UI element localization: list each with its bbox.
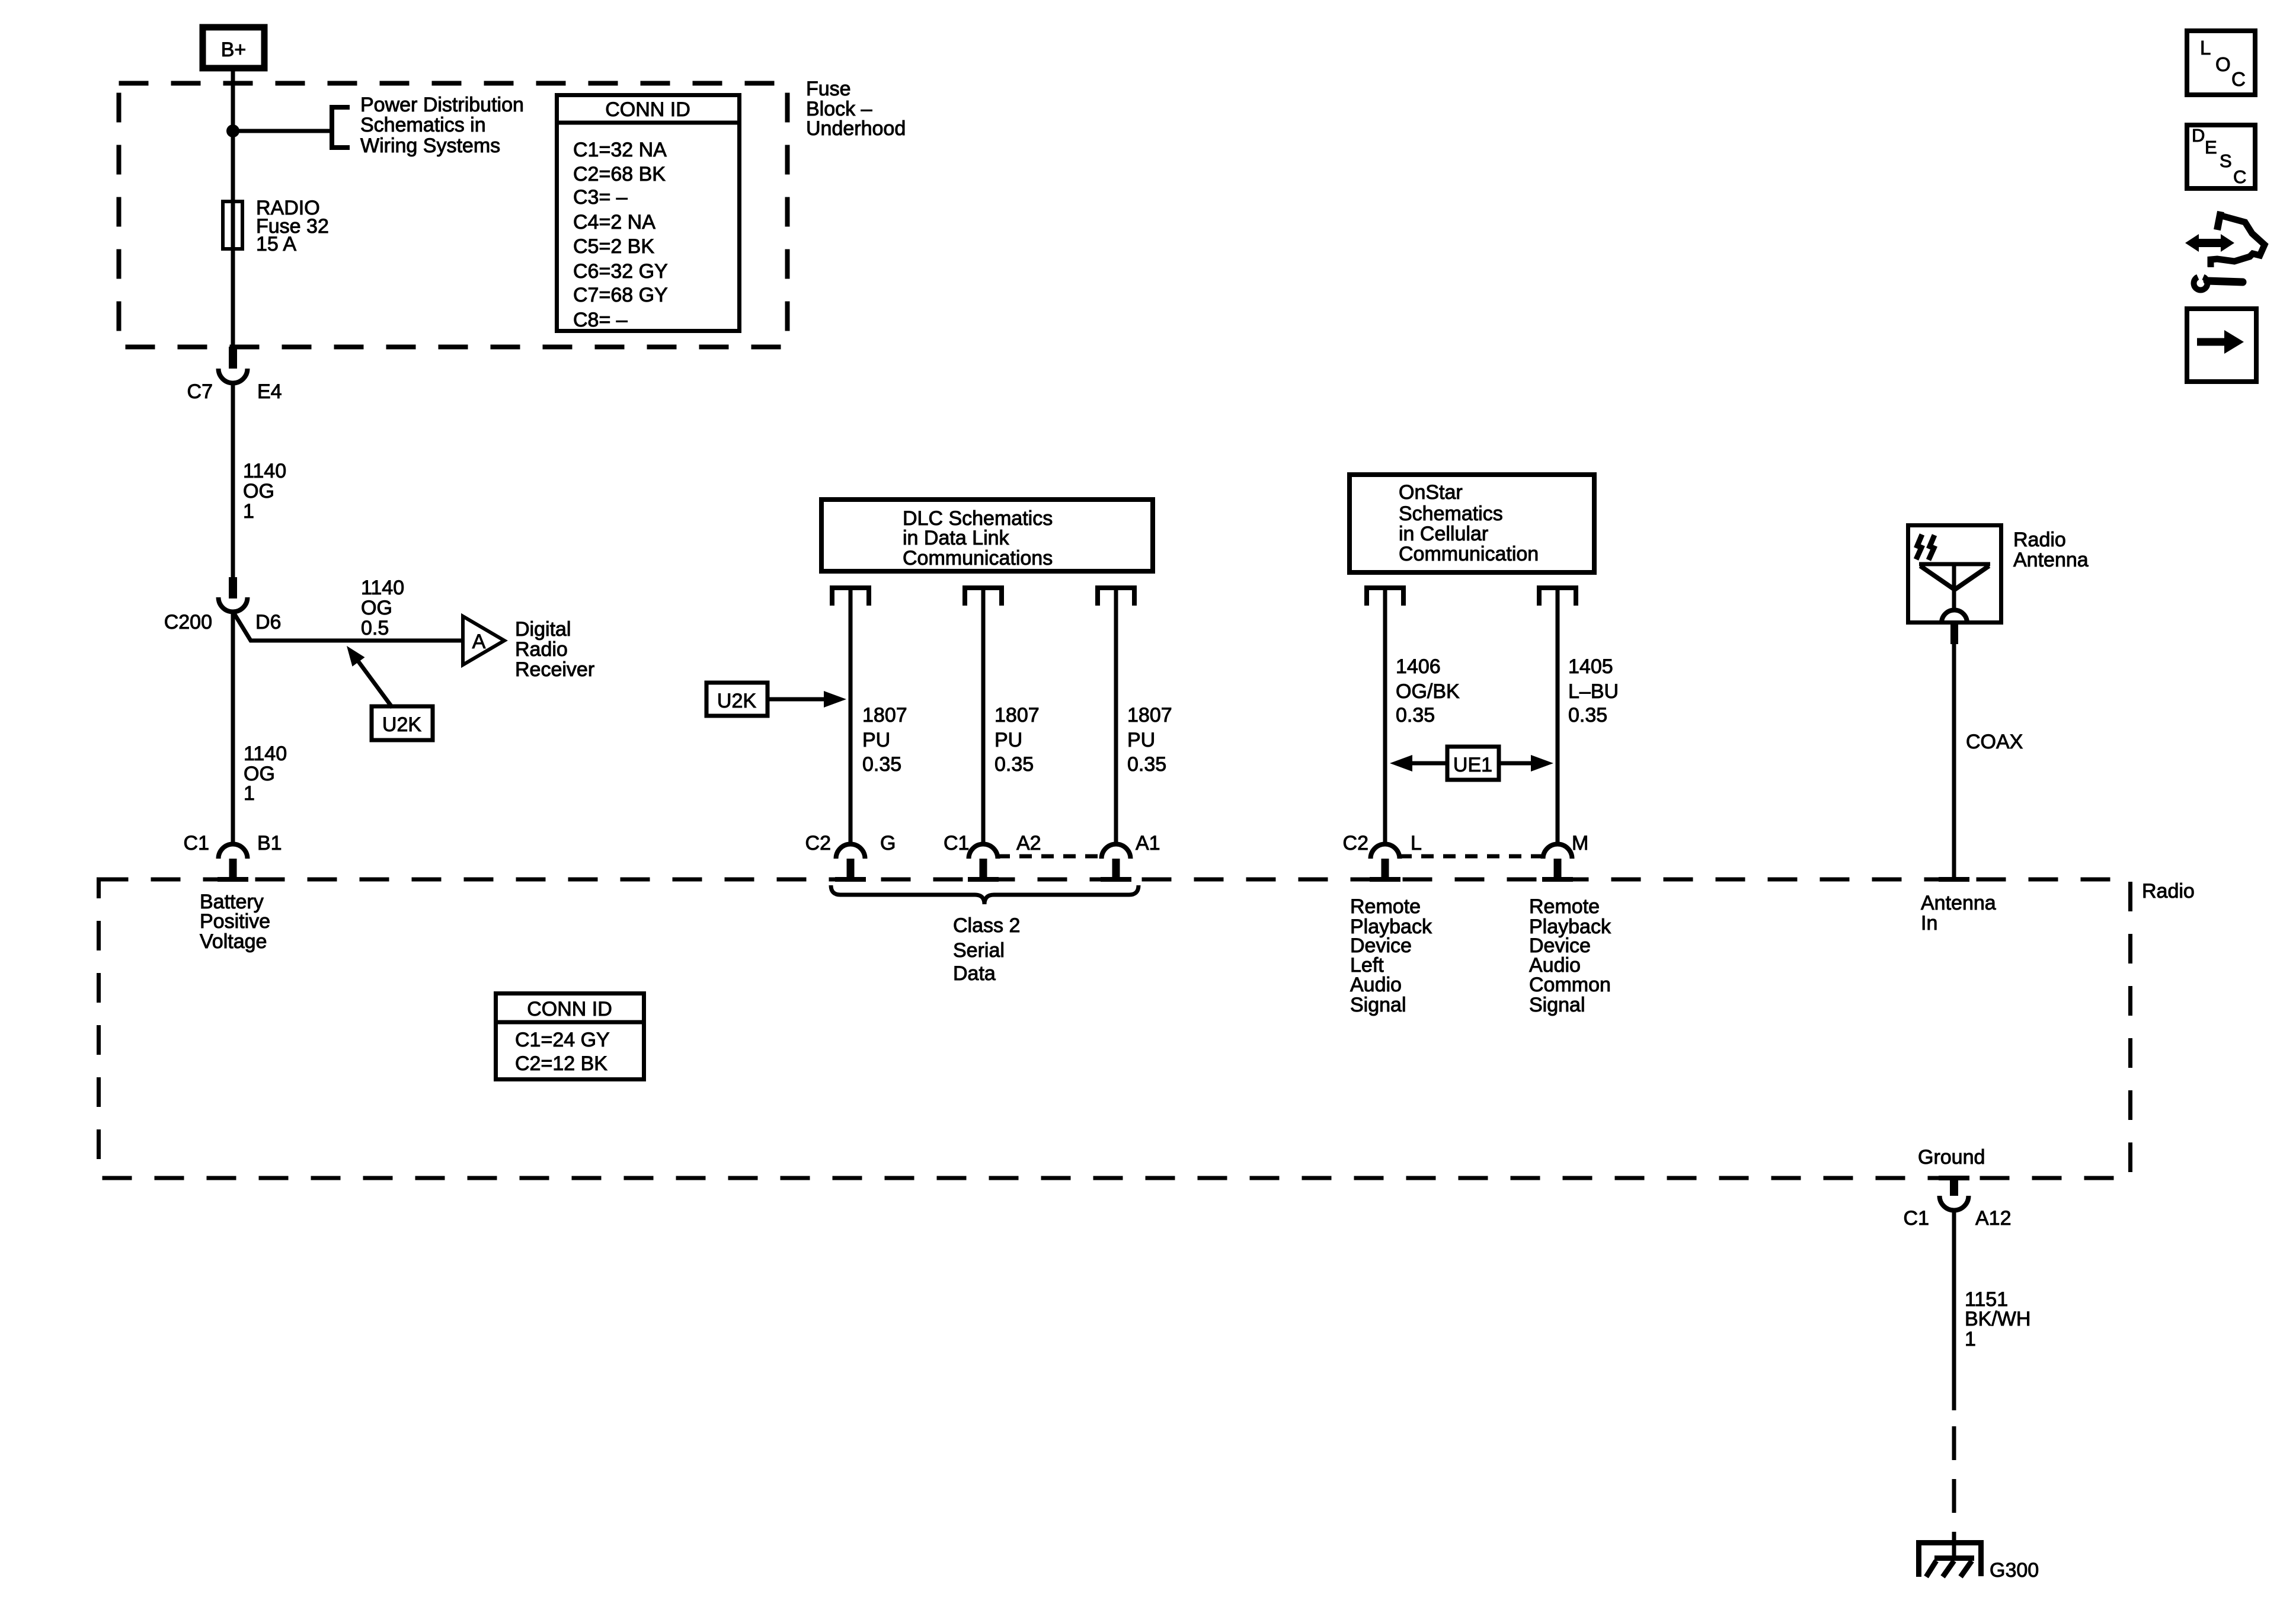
svg-text:C1=32 NA: C1=32 NA: [573, 139, 667, 161]
svg-text:Antenna: Antenna: [2013, 549, 2089, 571]
svg-text:in Cellular: in Cellular: [1399, 523, 1488, 545]
svg-text:C: C: [2231, 68, 2246, 90]
svg-text:CONN ID: CONN ID: [605, 98, 690, 121]
svg-text:D6: D6: [255, 611, 281, 633]
svg-text:U2K: U2K: [717, 690, 756, 712]
svg-text:OG: OG: [243, 480, 274, 502]
svg-text:B1: B1: [257, 832, 282, 854]
svg-text:G: G: [880, 832, 896, 854]
svg-text:L–BU: L–BU: [1568, 680, 1619, 703]
svg-text:C: C: [2233, 167, 2246, 187]
svg-text:1: 1: [243, 500, 254, 523]
svg-text:Class 2: Class 2: [953, 914, 1020, 937]
svg-text:OG/BK: OG/BK: [1396, 680, 1460, 703]
svg-text:1140: 1140: [244, 742, 287, 765]
svg-text:1140: 1140: [361, 577, 404, 599]
svg-text:OnStar: OnStar: [1399, 481, 1463, 504]
svg-text:15 A: 15 A: [256, 233, 296, 255]
svg-text:0.35: 0.35: [1396, 704, 1435, 726]
svg-text:E4: E4: [257, 380, 282, 403]
svg-text:Voltage: Voltage: [200, 930, 267, 953]
svg-text:0.35: 0.35: [994, 753, 1034, 776]
svg-text:1: 1: [1965, 1328, 1976, 1350]
svg-text:C1: C1: [184, 832, 209, 854]
svg-text:Audio: Audio: [1350, 974, 1402, 996]
svg-text:COAX: COAX: [1966, 731, 2023, 753]
svg-text:Radio: Radio: [2142, 880, 2195, 902]
svg-text:L: L: [1411, 832, 1422, 854]
svg-text:C1=24 GY: C1=24 GY: [515, 1029, 610, 1051]
svg-text:A1: A1: [1136, 832, 1160, 854]
svg-text:C5=2 BK: C5=2 BK: [573, 235, 654, 258]
svg-text:G300: G300: [1990, 1559, 2039, 1582]
svg-text:Communications: Communications: [903, 547, 1053, 569]
svg-text:Radio: Radio: [515, 638, 568, 661]
svg-text:O: O: [2215, 53, 2231, 75]
svg-text:A2: A2: [1016, 832, 1041, 854]
svg-text:C2=68 BK: C2=68 BK: [573, 163, 666, 185]
svg-text:L: L: [2200, 37, 2211, 59]
svg-text:BK/WH: BK/WH: [1965, 1308, 2030, 1330]
svg-text:1405: 1405: [1568, 655, 1613, 678]
svg-text:PU: PU: [994, 729, 1022, 751]
svg-text:Antenna: Antenna: [1921, 892, 1996, 914]
svg-text:C200: C200: [164, 611, 212, 633]
svg-text:S: S: [2220, 151, 2232, 171]
svg-text:A: A: [472, 630, 486, 653]
svg-text:Serial: Serial: [953, 939, 1005, 962]
svg-text:C1: C1: [944, 832, 969, 854]
svg-text:C1: C1: [1904, 1207, 1929, 1230]
svg-text:C7: C7: [187, 380, 213, 403]
svg-text:0.35: 0.35: [1127, 753, 1166, 776]
svg-text:Ground: Ground: [1918, 1146, 1985, 1169]
svg-text:Common: Common: [1529, 974, 1611, 996]
svg-text:M: M: [1572, 832, 1588, 854]
svg-text:Data: Data: [953, 962, 996, 985]
svg-text:0.35: 0.35: [862, 753, 901, 776]
svg-text:Fuse: Fuse: [806, 78, 851, 100]
svg-text:CONN ID: CONN ID: [527, 998, 612, 1020]
svg-text:C2=12 BK: C2=12 BK: [515, 1052, 607, 1075]
svg-text:C3= –: C3= –: [573, 186, 628, 209]
svg-text:Wiring Systems: Wiring Systems: [360, 135, 500, 157]
svg-text:1807: 1807: [1127, 704, 1172, 726]
svg-text:1: 1: [244, 782, 255, 805]
svg-text:Schematics: Schematics: [1399, 502, 1503, 525]
svg-text:C4=2 NA: C4=2 NA: [573, 211, 655, 233]
svg-text:D: D: [2192, 125, 2205, 146]
svg-text:UE1: UE1: [1453, 754, 1492, 776]
svg-text:Digital: Digital: [515, 618, 571, 641]
svg-text:1406: 1406: [1396, 655, 1441, 678]
svg-text:C6=32 GY: C6=32 GY: [573, 260, 668, 283]
svg-text:C7=68 GY: C7=68 GY: [573, 284, 668, 306]
svg-text:1807: 1807: [862, 704, 907, 726]
svg-text:Positive: Positive: [200, 910, 270, 933]
svg-text:Remote: Remote: [1529, 895, 1600, 918]
svg-text:Signal: Signal: [1529, 994, 1585, 1016]
svg-text:U2K: U2K: [382, 713, 421, 736]
svg-text:OG: OG: [361, 597, 392, 619]
svg-text:Schematics in: Schematics in: [360, 114, 486, 136]
svg-text:1140: 1140: [243, 460, 286, 482]
svg-text:1807: 1807: [994, 704, 1040, 726]
svg-text:Signal: Signal: [1350, 994, 1406, 1016]
svg-text:Power Distribution: Power Distribution: [360, 94, 524, 116]
svg-text:PU: PU: [862, 729, 890, 751]
svg-text:0.5: 0.5: [361, 617, 389, 639]
svg-text:PU: PU: [1127, 729, 1155, 751]
svg-text:Underhood: Underhood: [806, 117, 906, 140]
svg-text:B+: B+: [221, 39, 247, 61]
svg-text:A12: A12: [1975, 1207, 2012, 1230]
svg-text:in Data Link: in Data Link: [903, 527, 1010, 549]
svg-text:Remote: Remote: [1350, 895, 1421, 918]
svg-text:Radio: Radio: [2013, 529, 2066, 551]
svg-text:C2: C2: [1343, 832, 1368, 854]
svg-text:Communication: Communication: [1399, 543, 1539, 565]
svg-text:E: E: [2205, 137, 2217, 158]
svg-text:C2: C2: [805, 832, 831, 854]
svg-text:0.35: 0.35: [1568, 704, 1607, 726]
svg-text:C8= –: C8= –: [573, 309, 628, 331]
svg-text:In: In: [1921, 912, 1937, 934]
svg-text:Receiver: Receiver: [515, 658, 594, 681]
